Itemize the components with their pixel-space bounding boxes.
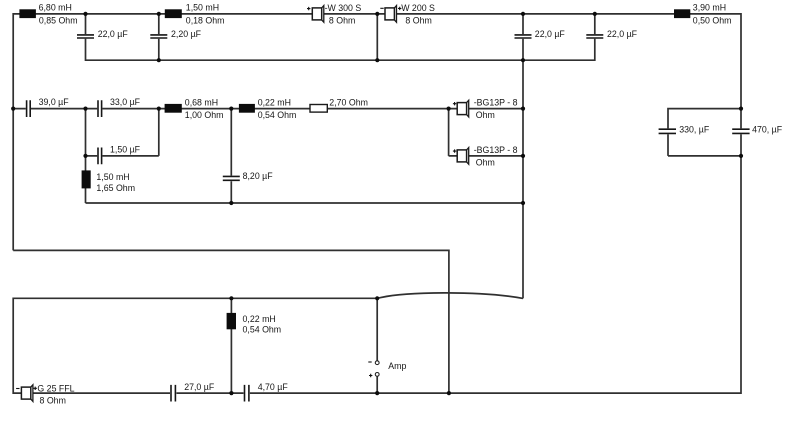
svg-text:-BG13P - 8: -BG13P - 8 [474,97,518,107]
svg-text:2,20 µF: 2,20 µF [171,29,202,39]
svg-text:0,68 mH: 0,68 mH [185,97,218,107]
svg-text:8 Ohm: 8 Ohm [405,15,431,25]
svg-text:22,0 µF: 22,0 µF [98,29,129,39]
svg-text:Ohm: Ohm [476,158,495,168]
svg-text:8,20 µF: 8,20 µF [243,171,274,181]
svg-text:4,70 µF: 4,70 µF [258,382,289,392]
svg-text:W 200 S: W 200 S [401,3,435,13]
svg-text:Amp: Amp [388,361,406,371]
svg-text:0,22 mH: 0,22 mH [243,314,276,324]
svg-text:0,85 Ohm: 0,85 Ohm [39,15,78,25]
svg-text:0,54 Ohm: 0,54 Ohm [243,325,282,335]
svg-text:470, µF: 470, µF [752,124,783,134]
svg-text:27,0 µF: 27,0 µF [184,382,215,392]
svg-text:1,50 mH: 1,50 mH [186,3,219,13]
svg-text:3,90 mH: 3,90 mH [693,3,726,13]
svg-text:1,65 Ohm: 1,65 Ohm [96,183,135,193]
svg-text:1,00 Ohm: 1,00 Ohm [185,110,224,120]
svg-text:1,50 mH: 1,50 mH [96,172,129,182]
svg-text:0,50 Ohm: 0,50 Ohm [693,15,732,25]
svg-text:22,0 µF: 22,0 µF [535,29,566,39]
svg-text:0,22 mH: 0,22 mH [258,97,291,107]
svg-text:1,50 µF: 1,50 µF [110,145,141,155]
svg-text:8 Ohm: 8 Ohm [329,15,355,25]
svg-text:0,54 Ohm: 0,54 Ohm [258,110,297,120]
svg-text:2,70 Ohm: 2,70 Ohm [329,98,368,108]
svg-text:330, µF: 330, µF [679,124,710,134]
svg-text:6,80 mH: 6,80 mH [39,3,72,13]
svg-text:8 Ohm: 8 Ohm [40,396,66,406]
svg-text:-W 300 S: -W 300 S [325,3,362,13]
svg-text:0,18 Ohm: 0,18 Ohm [186,15,225,25]
svg-text:G 25 FFL: G 25 FFL [37,383,74,393]
svg-text:-BG13P - 8: -BG13P - 8 [474,145,518,155]
svg-text:Ohm: Ohm [476,110,495,120]
svg-text:22,0 µF: 22,0 µF [607,29,638,39]
svg-text:33,0 µF: 33,0 µF [110,97,141,107]
svg-text:39,0 µF: 39,0 µF [39,97,70,107]
